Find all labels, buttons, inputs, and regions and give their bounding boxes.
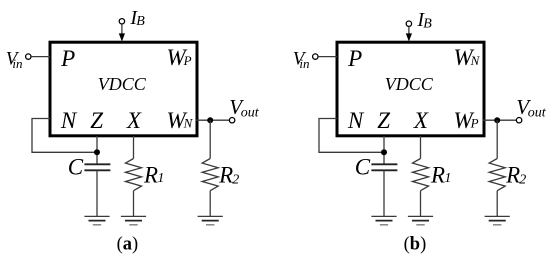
svg-text:C: C bbox=[68, 154, 84, 179]
wire C to ground bbox=[383, 170, 385, 216]
svg-text:R: R bbox=[218, 162, 233, 187]
terminal I_B (open circle) bbox=[119, 19, 124, 24]
svg-text:in: in bbox=[299, 56, 309, 71]
wire Z down to C bbox=[96, 136, 98, 164]
terminal V_in (open circle) bbox=[26, 54, 31, 59]
svg-text:P: P bbox=[183, 53, 192, 68]
svg-text:in: in bbox=[12, 56, 22, 71]
svg-text:(a): (a) bbox=[117, 234, 139, 254]
ground under R2 bbox=[485, 215, 510, 217]
ground under R1 bbox=[121, 215, 146, 217]
circuit (b) bbox=[293, 9, 547, 254]
resistor R1 bbox=[413, 159, 429, 191]
wire R1 to ground bbox=[133, 191, 135, 217]
svg-text:1: 1 bbox=[444, 171, 451, 186]
svg-text:C: C bbox=[355, 154, 371, 179]
svg-text:Z: Z bbox=[377, 108, 390, 133]
wire W output to V_out bbox=[196, 119, 229, 121]
svg-text:(b): (b) bbox=[404, 234, 427, 254]
svg-text:N: N bbox=[60, 108, 78, 133]
wire W output to V_out bbox=[483, 119, 516, 121]
ground under C bbox=[84, 215, 109, 217]
terminal V_out (open circle) bbox=[229, 118, 234, 123]
wire N feedback loop bbox=[32, 119, 97, 153]
ground under C bbox=[371, 215, 396, 217]
arrowhead into VDCC top bbox=[119, 33, 125, 41]
svg-text:VDCC: VDCC bbox=[98, 74, 147, 94]
wire X down to R1 bbox=[420, 136, 422, 159]
wire junction down to R2 bbox=[496, 120, 498, 158]
wire R2 to ground bbox=[209, 191, 211, 217]
capacitor C bbox=[84, 163, 110, 165]
resistor R2 bbox=[202, 159, 218, 191]
junction node output bbox=[207, 117, 213, 123]
svg-text:P: P bbox=[347, 46, 362, 71]
wire R1 to ground bbox=[420, 191, 422, 217]
wire R2 to ground bbox=[496, 191, 498, 217]
resistor R2 bbox=[489, 159, 505, 191]
wire V_in to pin P bbox=[318, 56, 337, 58]
VDCC block U1a bbox=[50, 42, 197, 136]
svg-text:R: R bbox=[505, 162, 520, 187]
wire C to ground bbox=[96, 170, 98, 216]
wire I_B stem bbox=[121, 24, 123, 36]
svg-text:2: 2 bbox=[519, 172, 526, 187]
svg-text:R: R bbox=[143, 162, 158, 187]
wire X down to R1 bbox=[133, 136, 135, 159]
terminal V_out (open circle) bbox=[516, 118, 521, 123]
VDCC block U1b bbox=[337, 42, 484, 136]
terminal V_in (open circle) bbox=[313, 54, 318, 59]
wire N feedback loop bbox=[319, 119, 384, 153]
svg-text:B: B bbox=[136, 14, 145, 29]
wire Z down to C bbox=[383, 136, 385, 164]
circuit (a) bbox=[6, 7, 260, 255]
terminal I_B (open circle) bbox=[406, 21, 411, 26]
svg-text:B: B bbox=[423, 17, 432, 32]
svg-text:N: N bbox=[183, 115, 194, 130]
svg-text:1: 1 bbox=[157, 171, 164, 186]
wire I_B stem bbox=[408, 27, 410, 37]
svg-text:out: out bbox=[528, 106, 547, 121]
resistor R1 bbox=[126, 159, 142, 191]
svg-text:Z: Z bbox=[90, 108, 103, 133]
svg-text:R: R bbox=[430, 162, 445, 187]
ground under R1 bbox=[408, 215, 433, 217]
svg-text:P: P bbox=[60, 46, 75, 71]
svg-text:VDCC: VDCC bbox=[385, 74, 434, 94]
wire V_in to pin P bbox=[31, 56, 50, 58]
wire junction down to R2 bbox=[209, 120, 211, 158]
svg-text:X: X bbox=[126, 108, 142, 133]
junction node Z/C bbox=[94, 149, 100, 155]
svg-text:2: 2 bbox=[232, 172, 239, 187]
svg-text:N: N bbox=[470, 53, 481, 68]
svg-text:out: out bbox=[241, 106, 260, 121]
svg-text:P: P bbox=[470, 115, 479, 130]
junction node output bbox=[494, 117, 500, 123]
junction node Z/C bbox=[381, 149, 387, 155]
svg-text:N: N bbox=[347, 108, 365, 133]
ground under R2 bbox=[198, 215, 223, 217]
svg-text:X: X bbox=[413, 108, 429, 133]
arrowhead into VDCC top bbox=[406, 33, 412, 41]
capacitor C bbox=[371, 163, 397, 165]
